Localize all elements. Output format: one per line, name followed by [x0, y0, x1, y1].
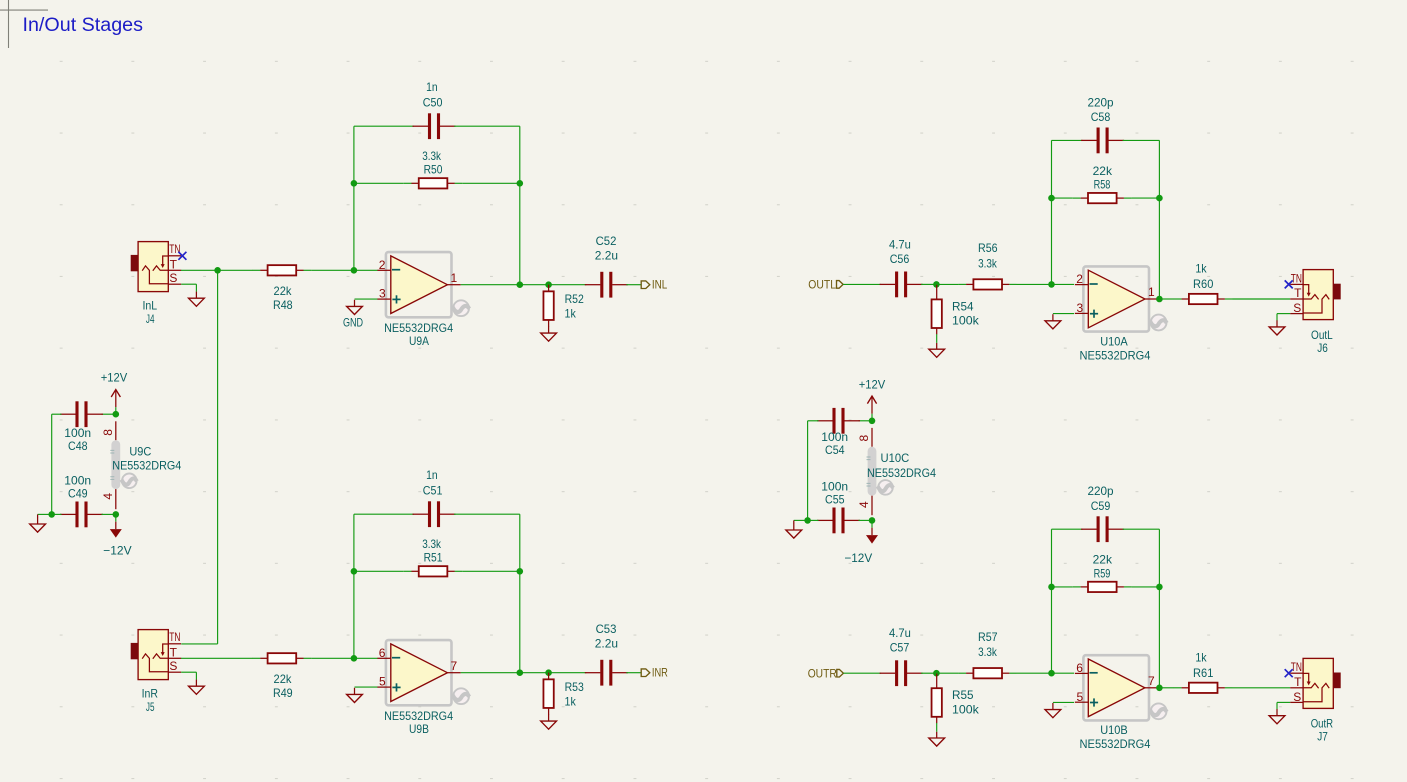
svg-text:220p: 220p	[1087, 95, 1113, 109]
value NE5532DRG4 (U10C)	[867, 466, 936, 480]
connector J7 (OutR) pin TN	[1290, 660, 1303, 674]
ground at J5.S	[189, 680, 205, 695]
wire C54 to left vertical (U10C)	[808, 421, 819, 521]
wire R51 right	[462, 570, 519, 572]
wire R61 to J7.T	[1233, 687, 1291, 689]
svg-text:5: 5	[379, 675, 386, 689]
no-connect X on J4 TN	[178, 252, 186, 260]
svg-text:100n: 100n	[821, 479, 848, 493]
connector J7 (OutR) switch contacts	[1303, 673, 1329, 701]
label 22k R59	[1093, 553, 1113, 581]
junction feedback right R50	[517, 180, 524, 187]
wire output to C52	[520, 284, 587, 286]
label 22k R58	[1093, 164, 1113, 192]
simulation icon (U9C)	[120, 474, 137, 489]
svg-text:R51: R51	[424, 550, 443, 564]
ground at J6.S	[1269, 320, 1285, 335]
connector J5 (InR) body	[138, 630, 168, 680]
svg-text:S: S	[169, 271, 177, 285]
junction at feedback tap pin2 (U10A)	[1048, 281, 1055, 288]
op-amp U10C power unit pin 8	[857, 428, 872, 447]
wire down-run to J5.TN horizontal	[181, 643, 217, 645]
connector J6 (OutL) body	[1303, 270, 1333, 320]
connector J6 (OutL) pin TN	[1290, 271, 1303, 285]
junction feedback left R50	[351, 180, 358, 187]
svg-text:C48: C48	[68, 439, 88, 453]
wire junction to R57	[936, 672, 958, 674]
ground at U10A pin3	[1045, 314, 1061, 329]
resistor R48	[253, 265, 312, 275]
wire C59 top-left	[1052, 528, 1083, 530]
svg-text:1k: 1k	[565, 306, 577, 320]
wire U10A pin3 to ground bend	[1053, 313, 1074, 315]
resistor R49	[253, 653, 312, 663]
svg-text:R49: R49	[273, 686, 293, 700]
capacitor C53	[585, 660, 628, 686]
svg-text:22k: 22k	[1093, 164, 1113, 178]
svg-text:C52: C52	[596, 234, 617, 248]
wire to ground (U9C)	[38, 513, 52, 515]
ground at U9A pin3	[347, 300, 363, 315]
svg-text:TN: TN	[169, 242, 180, 256]
wire R48 to U9A pin2	[311, 269, 377, 271]
op-amp U9C power unit body	[110, 440, 120, 489]
label C52 2.2u	[595, 234, 618, 263]
connector J6 (OutL) value J6	[1317, 341, 1328, 355]
svg-text:100k: 100k	[952, 702, 980, 716]
no-connect X on J7 TN	[1285, 669, 1293, 677]
svg-text:4.7u: 4.7u	[889, 626, 911, 640]
svg-text:NE5532DRG4: NE5532DRG4	[384, 709, 453, 723]
wire R50 left	[354, 182, 404, 184]
op-amp U10A reference U10A	[1100, 334, 1128, 348]
connector J4 (InL) sleeve	[131, 255, 138, 271]
wire J5.S to ground	[181, 672, 196, 680]
wire junction to C48 (U9C)	[102, 413, 116, 415]
resistor R56	[958, 279, 1017, 289]
op-amp U9A value NE5532DRG4	[384, 321, 453, 335]
svg-text:U10B: U10B	[1100, 723, 1128, 737]
junction V- (U10C)	[869, 517, 876, 524]
wire R58 left	[1052, 197, 1073, 199]
wire C52 to INL	[626, 284, 641, 286]
capacitor C55	[817, 508, 860, 534]
svg-text:R58: R58	[1094, 178, 1111, 192]
capacitor C49	[60, 502, 103, 528]
op-amp U10B triangle body	[1088, 659, 1145, 717]
svg-text:−12V: −12V	[844, 551, 872, 565]
op-amp U9A pin 2 (inverting input)	[377, 258, 390, 272]
svg-text:T: T	[170, 645, 178, 659]
junction gnd tap (U10C)	[804, 517, 811, 524]
svg-text:7: 7	[1148, 674, 1155, 688]
feedback right vertical wire (U9B)	[519, 514, 521, 673]
capacitor C56	[880, 272, 923, 298]
label 3.3k R51	[422, 537, 442, 565]
resistor R50	[404, 178, 463, 188]
op-amp U10B value NE5532DRG4	[1080, 737, 1151, 751]
svg-text:NE5532DRG4: NE5532DRG4	[867, 466, 936, 480]
op-amp U9A simulation icon	[451, 300, 470, 316]
svg-text:U9C: U9C	[129, 445, 151, 459]
hierarchical label OUTR	[808, 666, 844, 680]
junction feedback left R58	[1048, 195, 1055, 202]
junction feedback left R59	[1048, 584, 1055, 591]
wire J4.S to ground	[181, 284, 196, 292]
svg-text:J5: J5	[146, 700, 155, 714]
op-amp U9A reference U9A	[409, 334, 429, 348]
op-amp U9B minus mark	[392, 657, 400, 659]
svg-text:6: 6	[379, 646, 386, 660]
junction feedback right R58	[1156, 195, 1163, 202]
wire C49 row (U9C)	[52, 513, 116, 515]
ground at J7.S	[1269, 709, 1285, 724]
op-amp U9C power unit pin 8	[101, 421, 116, 440]
svg-text:INR: INR	[652, 665, 668, 679]
label R54 100k	[952, 299, 980, 327]
label 1k R60	[1193, 262, 1214, 291]
wire J5.T to R49	[181, 657, 253, 659]
svg-text:R54: R54	[952, 299, 974, 313]
label 22k R49	[273, 672, 293, 700]
label R55 100k	[952, 688, 980, 716]
svg-text:R56: R56	[978, 241, 998, 255]
junction at feedback tap pin6 (U10B)	[1048, 670, 1055, 677]
connector J4 (InL) pin S	[168, 271, 181, 285]
connector J5 (InR) switch contacts	[142, 644, 168, 672]
op-amp U10C power unit body	[867, 447, 877, 496]
svg-text:NE5532DRG4: NE5532DRG4	[384, 321, 453, 335]
op-amp U10B plus mark	[1090, 698, 1098, 706]
label 100n C48	[64, 426, 91, 453]
junction at feedback tap pin2	[351, 267, 358, 274]
connector J7 (OutR) pin S	[1290, 690, 1303, 704]
op-amp U10A simulation icon	[1148, 315, 1167, 331]
svg-text:C59: C59	[1091, 499, 1111, 513]
svg-text:NE5532DRG4: NE5532DRG4	[1080, 348, 1151, 362]
svg-text:R48: R48	[273, 298, 293, 312]
op-amp U9A triangle body	[391, 256, 448, 314]
title text In/Out Stages	[23, 15, 144, 36]
connector J4 (InL) pin T	[168, 257, 181, 271]
svg-text:1k: 1k	[565, 694, 577, 708]
svg-text:4.7u: 4.7u	[889, 237, 911, 251]
svg-text:2: 2	[1076, 272, 1083, 286]
wire R60 to J6.T	[1233, 298, 1291, 300]
svg-text:1n: 1n	[426, 468, 438, 482]
connector J6 (OutL) pin S	[1290, 301, 1303, 315]
connector J4 (InL) value J4	[146, 312, 155, 326]
junction V+ (U9C)	[113, 411, 120, 418]
wire C51 top-right	[454, 513, 520, 515]
svg-text:22k: 22k	[274, 284, 293, 298]
svg-text:R59: R59	[1094, 567, 1111, 581]
wire U9B output	[461, 672, 520, 674]
svg-text:4: 4	[101, 493, 115, 500]
junction V+ (U10C)	[869, 418, 876, 425]
svg-text:T: T	[1294, 675, 1302, 689]
label R53 1k	[565, 680, 585, 708]
connector J5 (InR) pin S	[168, 659, 181, 673]
ground at J4.S	[189, 292, 205, 307]
op-amp U9A pin 3 (non-inverting input)	[377, 287, 390, 301]
svg-text:100k: 100k	[952, 314, 980, 328]
resistor R61	[1174, 683, 1233, 693]
wire U10B pin5 to ground bend	[1053, 701, 1074, 703]
svg-text:OutL: OutL	[1311, 328, 1333, 342]
connector J4 (InL) pin TN	[168, 242, 181, 256]
label 220p C59	[1087, 484, 1113, 513]
node A junction	[214, 267, 221, 274]
junction at feedback tap pin6	[351, 655, 358, 662]
power symbol +12V (U10C)	[859, 378, 886, 414]
ground below R53	[541, 714, 557, 729]
label 4.7u C57	[889, 626, 911, 655]
svg-text:3: 3	[1077, 301, 1084, 315]
label 220p C58	[1087, 95, 1113, 124]
junction V- (U9C)	[113, 511, 120, 518]
svg-text:S: S	[1293, 690, 1301, 704]
op-amp U9A grey body outline	[386, 252, 452, 317]
op-amp U9C power unit pin 4	[101, 489, 116, 509]
junction gnd tap (U9C)	[48, 511, 55, 518]
svg-text:In/Out Stages: In/Out Stages	[23, 15, 144, 36]
op-amp U10A pin 2 (inverting input)	[1075, 272, 1088, 286]
svg-text:1k: 1k	[1195, 651, 1207, 665]
wire J4.T to R48	[181, 269, 253, 271]
wire R51 left	[354, 570, 404, 572]
svg-text:R60: R60	[1193, 277, 1214, 291]
svg-text:T: T	[170, 257, 178, 271]
op-amp U10C power unit pin 4	[857, 496, 872, 516]
wire C50 top-left	[354, 125, 414, 127]
label R52 1k	[565, 292, 585, 320]
op-amp U10A plus mark	[1090, 310, 1098, 318]
connector J5 (InR) value J5	[146, 700, 155, 714]
svg-text:NE5532DRG4: NE5532DRG4	[1080, 737, 1151, 751]
ground at U10B pin5	[1045, 703, 1061, 718]
svg-text:J7: J7	[1317, 730, 1328, 744]
op-amp U10B pin 7 (output)	[1145, 674, 1158, 688]
wire R59 left	[1052, 586, 1073, 588]
svg-text:C57: C57	[890, 641, 910, 655]
resistor R57	[958, 668, 1017, 678]
svg-text:22k: 22k	[1093, 553, 1113, 567]
capacitor C51	[413, 501, 456, 527]
junction R55 tap	[933, 670, 940, 677]
wire C58 top-left	[1052, 139, 1083, 141]
label 1n C50	[423, 80, 443, 109]
feedback left vertical wire (U10B)	[1051, 529, 1053, 673]
capacitor C52	[585, 272, 628, 298]
svg-text:8: 8	[857, 434, 871, 441]
wire +12V to junction (U9C)	[115, 407, 117, 414]
wire R56 to U10A pin2	[1017, 283, 1074, 285]
resistor R58	[1073, 193, 1132, 203]
svg-text:U10C: U10C	[881, 451, 910, 465]
svg-text:R55: R55	[952, 688, 974, 702]
connector J7 (OutR) pin T	[1290, 675, 1303, 689]
junction R52 tap	[545, 281, 552, 288]
label 3.3k R50	[422, 149, 442, 177]
svg-text:8: 8	[101, 429, 115, 436]
svg-text:3.3k: 3.3k	[422, 537, 442, 551]
hierarchical label OUTL	[808, 278, 843, 292]
junction feedback right R51	[517, 568, 524, 575]
connector J5 (InR) pin T	[168, 645, 181, 659]
power symbol -12V (U9C)	[103, 514, 131, 557]
wire C50 top-right	[454, 125, 520, 127]
connector J7 (OutR) sleeve	[1333, 673, 1340, 689]
op-amp U9B pin 6 (inverting input)	[377, 646, 390, 660]
capacitor C58	[1081, 128, 1124, 154]
resistor R54	[932, 285, 942, 335]
wire J7.S to ground	[1277, 702, 1290, 709]
connector J7 (OutR) value J7	[1317, 730, 1328, 744]
wire C59 top-right	[1123, 528, 1160, 530]
wire output to R61	[1159, 687, 1174, 689]
svg-text:OutR: OutR	[1311, 717, 1334, 731]
op-amp U9B value NE5532DRG4	[384, 709, 453, 723]
svg-text:C55: C55	[825, 493, 845, 507]
capacitor C59	[1081, 516, 1124, 542]
svg-text:C50: C50	[423, 95, 443, 109]
svg-text:R52: R52	[565, 292, 584, 306]
label C53 2.2u	[595, 622, 618, 651]
svg-text:2.2u: 2.2u	[595, 636, 618, 650]
simulation icon (U10C)	[876, 480, 893, 495]
resistor R55	[932, 674, 942, 724]
svg-text:J6: J6	[1317, 341, 1328, 355]
wire OUTL to C56	[843, 283, 881, 285]
op-amp U9B triangle body	[391, 644, 448, 702]
label 1k R61	[1193, 651, 1214, 680]
svg-text:7: 7	[451, 659, 458, 673]
label GND	[343, 316, 363, 330]
wire U10A output	[1158, 298, 1159, 300]
sheet border corner mark	[0, 0, 48, 48]
svg-text:3.3k: 3.3k	[978, 256, 998, 270]
svg-text:3.3k: 3.3k	[422, 149, 442, 163]
op-amp U9B pin 7 (output)	[447, 659, 460, 673]
junction R53 tap	[545, 669, 552, 676]
op-amp U10B pin 6 (inverting input)	[1075, 661, 1088, 675]
wire node A down to J5.TN	[217, 270, 219, 644]
junction R54 tap	[933, 281, 940, 288]
ground below R55	[929, 723, 945, 746]
svg-text:S: S	[169, 659, 177, 673]
wire C51 top-left	[354, 513, 414, 515]
svg-text:R57: R57	[978, 630, 998, 644]
wire R59 right	[1132, 586, 1160, 588]
junction output feedback	[517, 281, 524, 288]
svg-text:U9B: U9B	[409, 722, 429, 736]
label 100n C55	[821, 479, 848, 506]
svg-text:U9A: U9A	[409, 334, 429, 348]
wire R49 to U9B pin6	[311, 657, 377, 659]
power symbol -12V (U10C)	[844, 520, 878, 565]
svg-text:2.2u: 2.2u	[595, 248, 618, 262]
op-amp U10A pin 1 (output)	[1145, 285, 1158, 299]
svg-text:+12V: +12V	[859, 378, 886, 392]
connector J4 (InL) reference J4	[142, 298, 157, 312]
wire +12V to junction (U10C)	[871, 414, 873, 421]
resistor R52	[543, 285, 553, 327]
connector J5 (InR) sleeve	[131, 643, 138, 659]
op-amp U10B grey body outline	[1083, 655, 1149, 720]
op-amp U10A value NE5532DRG4	[1080, 348, 1151, 362]
reference U9C	[129, 445, 151, 459]
resistor R51	[404, 566, 463, 576]
svg-text:C49: C49	[68, 487, 88, 501]
svg-text:TN: TN	[169, 630, 180, 644]
wire J6.S to ground	[1277, 314, 1290, 321]
resistor R53	[543, 673, 553, 715]
feedback left vertical wire (U10A)	[1051, 140, 1053, 284]
op-amp U10B pin 5 (non-inverting input)	[1075, 690, 1088, 704]
wire junction to R56	[936, 283, 958, 285]
svg-text:C51: C51	[423, 483, 443, 497]
wire U9A output	[461, 284, 520, 286]
op-amp U9B simulation icon	[451, 688, 470, 704]
junction feedback left R51	[351, 568, 358, 575]
svg-text:R53: R53	[565, 680, 584, 694]
label 1n C51	[423, 468, 443, 497]
op-amp U10A grey body outline	[1083, 266, 1149, 331]
label R56 3.3k	[978, 241, 998, 270]
svg-text:4: 4	[857, 501, 871, 508]
junction output feedback (U10B)	[1156, 685, 1163, 692]
wire R57 to U10B pin6	[1017, 672, 1074, 674]
feedback right vertical wire (U10A)	[1158, 140, 1160, 299]
op-amp U9A minus mark	[392, 269, 400, 271]
junction feedback right R59	[1156, 584, 1163, 591]
connector J6 (OutL) pin T	[1290, 286, 1303, 300]
wire U9B pin5 to ground bend	[355, 686, 378, 688]
op-amp U9A plus mark	[392, 295, 400, 303]
connector J6 (OutL) switch contacts	[1303, 285, 1329, 313]
ground at U9B pin5	[347, 688, 363, 703]
hierarchical label INR	[641, 665, 668, 679]
feedback right vertical wire	[519, 126, 521, 285]
svg-text:GND: GND	[343, 316, 363, 330]
connector J6 (OutL) reference J6	[1311, 328, 1333, 342]
reference U10C	[881, 451, 910, 465]
label 4.7u C56	[889, 237, 911, 266]
wire C57 to junction	[921, 672, 936, 674]
wire U9A pin3 to ground bend	[355, 298, 378, 300]
svg-text:3.3k: 3.3k	[978, 645, 998, 659]
svg-text:1: 1	[1148, 285, 1155, 299]
wire R50 right	[462, 182, 519, 184]
svg-text:InL: InL	[142, 298, 157, 312]
svg-text:T: T	[1294, 286, 1302, 300]
wire C48 to left vertical (U9C)	[52, 414, 62, 514]
svg-text:INL: INL	[652, 277, 668, 291]
op-amp U9B reference U9B	[409, 722, 429, 736]
wire C56 to junction	[921, 283, 936, 285]
svg-text:+12V: +12V	[101, 370, 128, 384]
op-amp U9B pin 5 (non-inverting input)	[377, 675, 390, 689]
capacitor C57	[880, 660, 923, 686]
label R57 3.3k	[978, 630, 998, 659]
svg-text:22k: 22k	[274, 672, 293, 686]
ground below R54	[929, 334, 945, 357]
junction output feedback (U10A)	[1156, 296, 1163, 303]
svg-text:1: 1	[451, 271, 458, 285]
wire C53 to INR	[626, 672, 641, 674]
no-connect X on J6 TN	[1285, 280, 1293, 288]
